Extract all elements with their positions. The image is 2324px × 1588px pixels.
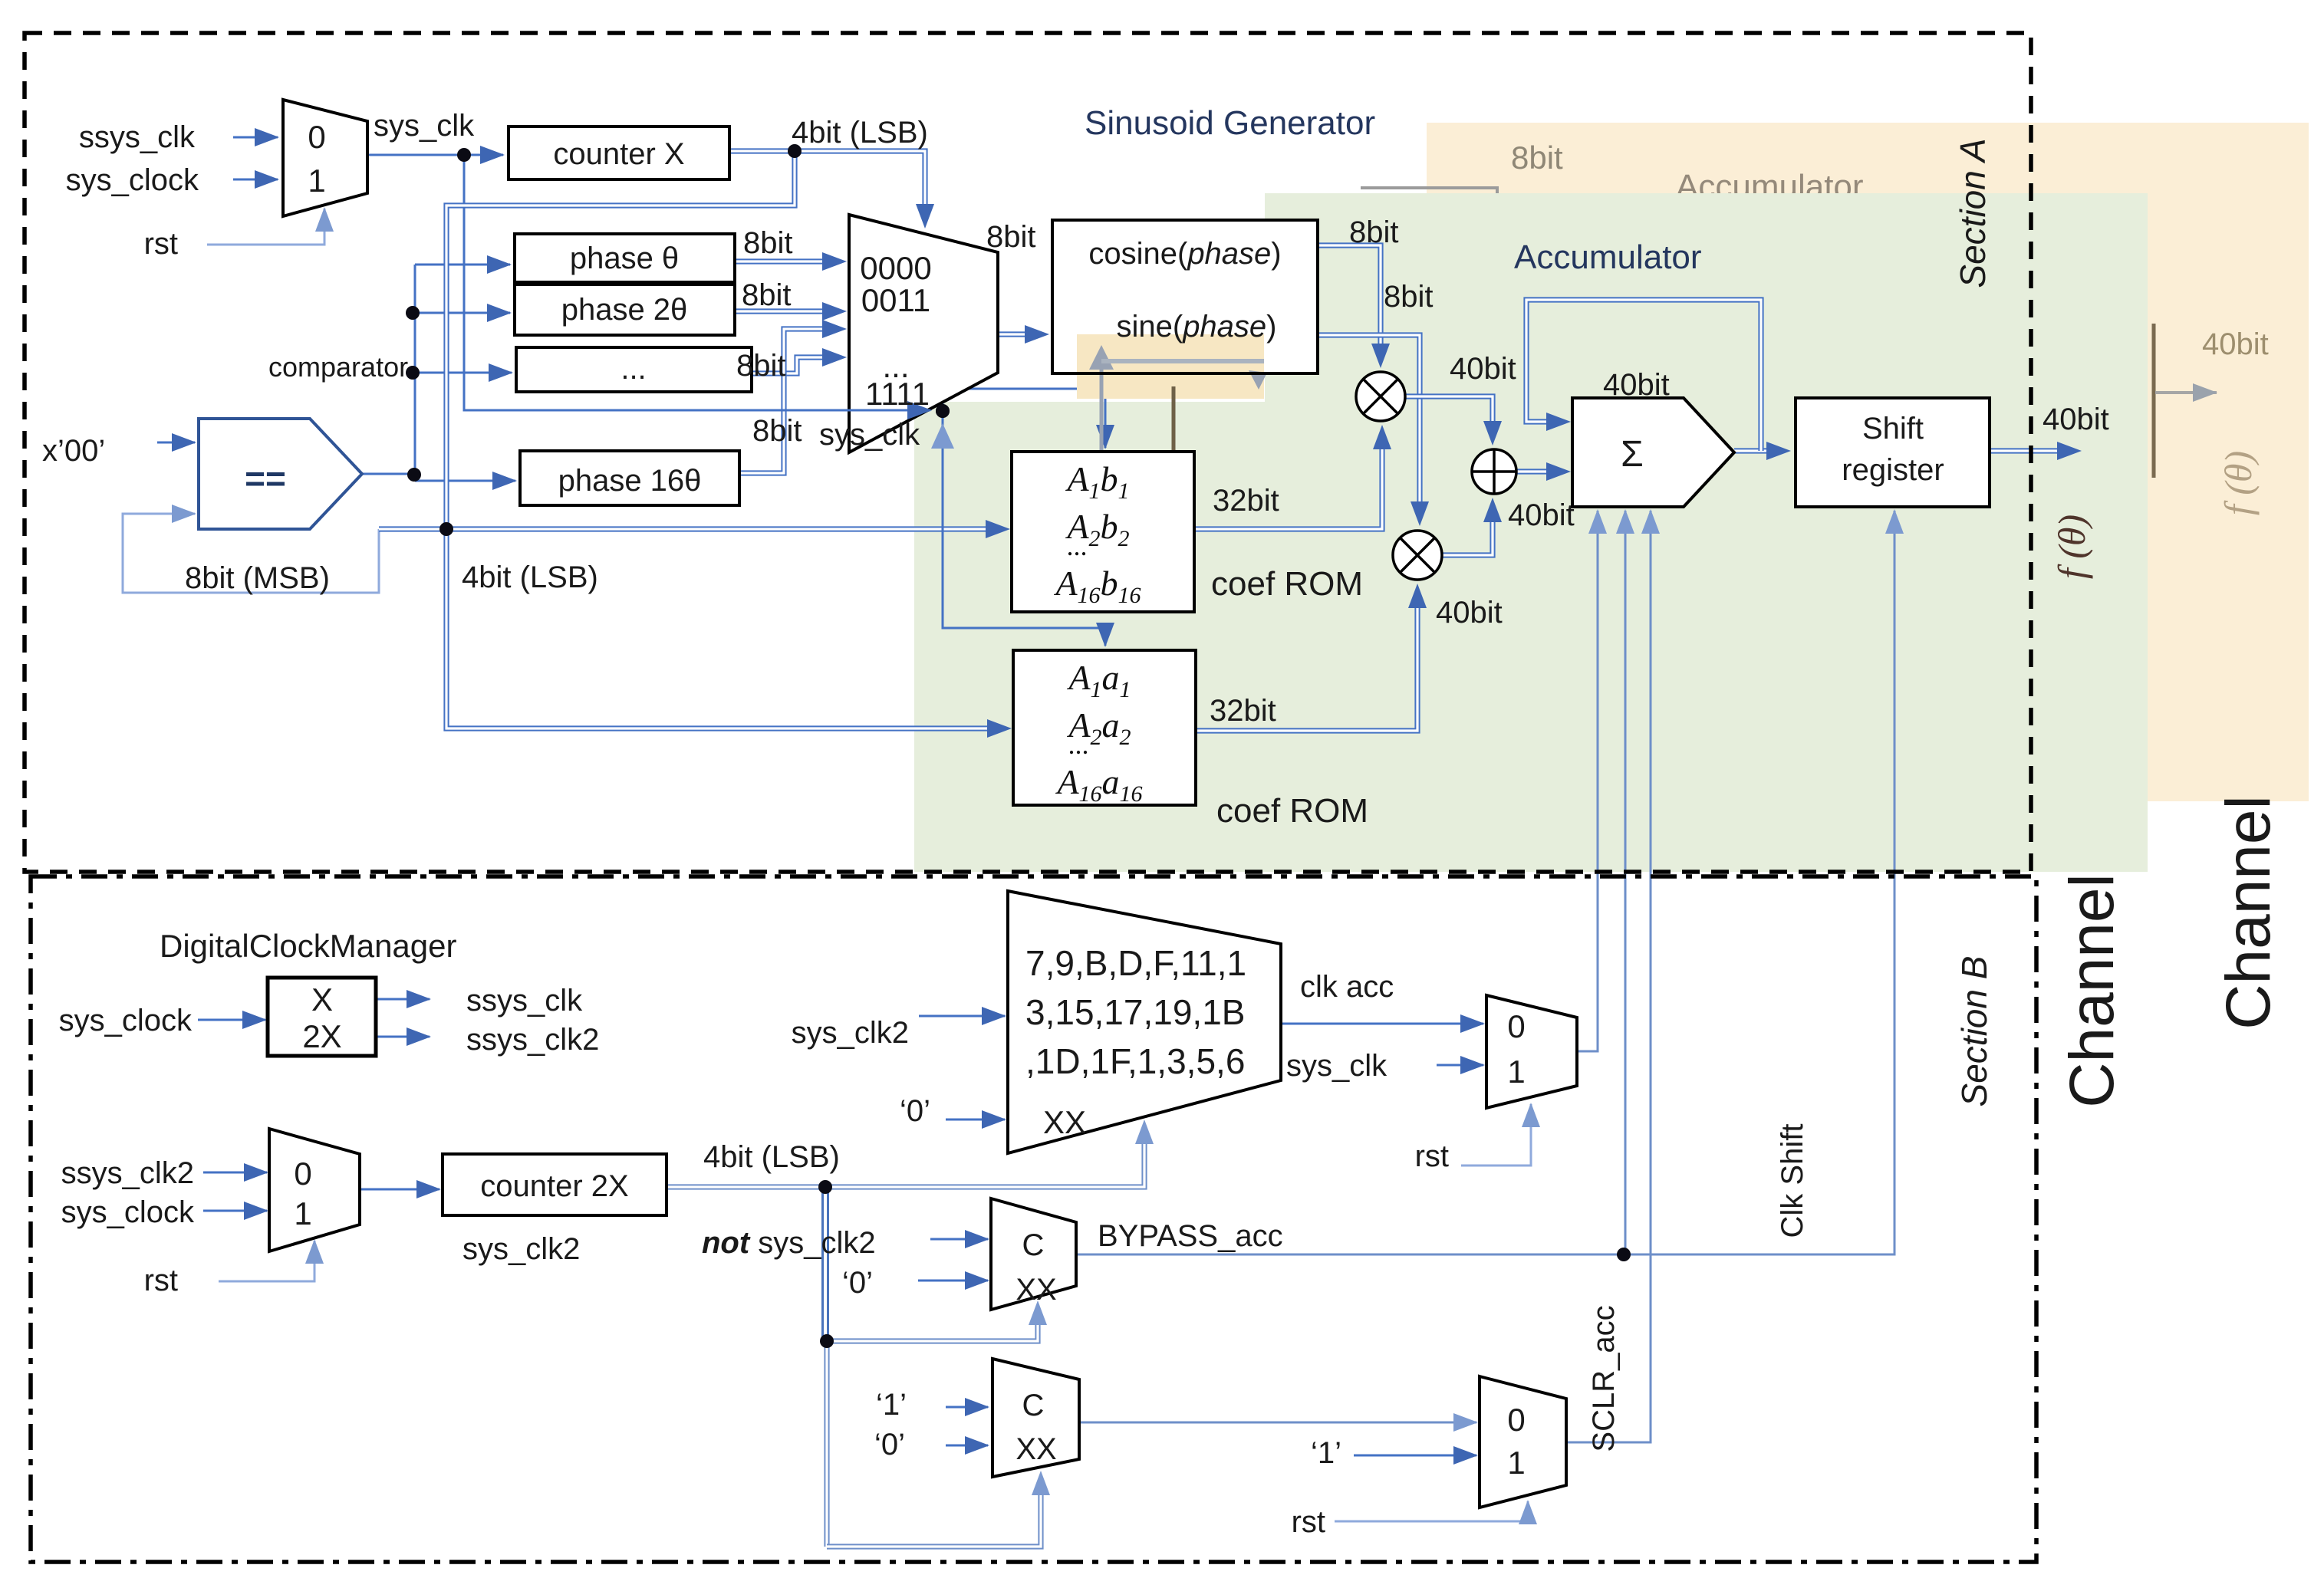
svg-text:ssys_clk: ssys_clk <box>466 984 583 1018</box>
svg-text:sys_clk2: sys_clk2 <box>792 1016 909 1050</box>
svg-text:ssys_clk2: ssys_clk2 <box>61 1156 194 1190</box>
bus dots register output 8bit <box>752 357 845 373</box>
bus a coef ROM output 32bit <box>1196 585 1417 731</box>
mux M6 SCLR select 0/1 <box>1480 1376 1566 1507</box>
svg-text:...: ... <box>621 352 646 386</box>
wire '1' into C mux 2 <box>946 1406 988 1409</box>
svg-text:40bit: 40bit <box>2043 403 2109 436</box>
wire DCM output ssys_clk2 <box>376 1036 430 1038</box>
wire sys_clk into mux M5 <box>1437 1064 1483 1067</box>
mux M5 clk acc select 0/1 <box>1486 995 1577 1108</box>
svg-text:==: == <box>245 459 286 498</box>
bus 4bit LSB to b coef ROM <box>379 526 1009 531</box>
bus sigma 40bit feedback loop <box>1526 300 1761 451</box>
wire to phase 16theta register <box>415 480 515 482</box>
svg-text:Channel: Channel <box>2057 873 2127 1107</box>
Section B dash-dot border <box>31 876 2036 1562</box>
svg-text:8bit: 8bit <box>742 278 792 312</box>
node 4bit LSB branch <box>788 144 802 158</box>
svg-text:8bit: 8bit <box>752 414 802 448</box>
svg-text:Σ: Σ <box>1621 434 1644 475</box>
svg-text:sys_clock: sys_clock <box>61 1195 195 1229</box>
svg-text:rst: rst <box>144 1264 178 1297</box>
svg-text:sys_clk: sys_clk <box>819 418 920 452</box>
bus b coef ROM output 32bit <box>1194 426 1382 529</box>
node comparator output <box>407 468 421 482</box>
svg-text:Channel: Channel <box>2214 795 2283 1029</box>
wire BYPASS_acc from C mux 1 to sigma and shift register <box>1076 511 1894 1254</box>
svg-text:counter X: counter X <box>553 137 684 171</box>
svg-text:2X: 2X <box>302 1018 341 1054</box>
bus multiplier X2 output 40bit into adder <box>1442 499 1493 555</box>
Section A dashed border <box>25 33 2031 872</box>
svg-text:phase θ: phase θ <box>570 242 679 275</box>
svg-text:BYPASS_acc: BYPASS_acc <box>1098 1219 1283 1253</box>
svg-text:Section A: Section A <box>1953 138 1993 288</box>
register phase 16theta <box>520 451 739 505</box>
svg-text:1: 1 <box>294 1195 311 1231</box>
svg-text:X: X <box>311 981 333 1018</box>
wire rst into mux M5 (light) <box>1461 1104 1531 1166</box>
svg-text:sys_clk: sys_clk <box>374 109 475 143</box>
bus select into C mux 2 <box>827 1472 1041 1547</box>
svg-text:rst: rst <box>1415 1139 1449 1173</box>
node 4bit LSB junction <box>439 522 453 536</box>
svg-text:Clk Shift: Clk Shift <box>1776 1124 1809 1238</box>
svg-text:8bit: 8bit <box>743 226 793 260</box>
wire rst into mux M3 (light) <box>219 1241 314 1281</box>
mux M1 (clock select) output wire sys_clk <box>367 154 503 156</box>
svg-text:8bit: 8bit <box>736 349 786 383</box>
svg-text:counter 2X: counter 2X <box>480 1169 628 1203</box>
svg-text:phase 2θ: phase 2θ <box>561 293 688 327</box>
coef ROM b <box>1012 452 1194 612</box>
svg-text:Sinusoid Generator: Sinusoid Generator <box>1085 104 1375 142</box>
bus adder output 40bit into sigma <box>1516 469 1569 474</box>
svg-text:Shift: Shift <box>1862 412 1924 445</box>
wire inputs into mux M3 <box>203 1172 267 1174</box>
node sys_clk at ROMs <box>936 404 950 418</box>
svg-text:0011: 0011 <box>861 282 930 318</box>
faded back-channel shift output <box>2152 324 2156 478</box>
mux M3 clock select 0/1 <box>269 1129 360 1251</box>
svg-text:7,9,B,D,F,11,1: 7,9,B,D,F,11,1 <box>1025 943 1246 983</box>
svg-text:3,15,17,19,1B: 3,15,17,19,1B <box>1025 992 1245 1032</box>
svg-text:0: 0 <box>1507 1402 1525 1438</box>
svg-text:8bit: 8bit <box>1349 215 1399 249</box>
svg-text:sys_clk2: sys_clk2 <box>462 1232 580 1266</box>
svg-text:DigitalClockManager: DigitalClockManager <box>160 928 457 964</box>
svg-text:coef ROM: coef ROM <box>1211 565 1363 603</box>
svg-text:x’00’: x’00’ <box>42 434 105 468</box>
bus counter 2X output 4bit to big clock mux select <box>667 1121 1144 1187</box>
DigitalClockManager box <box>268 978 376 1056</box>
coef ROM a contents <box>1055 658 1142 807</box>
svg-text:‘0’: ‘0’ <box>842 1266 873 1300</box>
svg-text:comparator: comparator <box>268 351 408 383</box>
channel background green left extension <box>914 402 1267 872</box>
svg-text:8bit (MSB): 8bit (MSB) <box>185 561 330 595</box>
bus phase 2theta output 8bit <box>735 308 845 314</box>
svg-text:1: 1 <box>1507 1054 1525 1090</box>
svg-text:Section B: Section B <box>1954 956 1994 1107</box>
svg-text:sys_clk: sys_clk <box>1286 1049 1387 1083</box>
svg-text:sine(phase): sine(phase) <box>1116 310 1276 344</box>
svg-text:40bit: 40bit <box>2202 327 2269 361</box>
wire mux M3 output into counter 2X <box>360 1189 439 1191</box>
wire a coef ROM clock <box>943 411 1105 646</box>
wire '0' into big clock mux <box>946 1119 1005 1121</box>
wire sys_clk vertical + run to coef ROM clocks <box>464 155 930 410</box>
svg-text:40bit: 40bit <box>1603 368 1670 402</box>
register phase theta <box>515 234 735 282</box>
faded back-channel patch over LUT <box>1077 334 1267 462</box>
svg-text:C: C <box>1022 1228 1045 1262</box>
node 4bit LSB section B <box>818 1180 832 1194</box>
svg-text:phase 16θ: phase 16θ <box>558 464 702 498</box>
svg-text:0: 0 <box>308 119 325 155</box>
wire not sys_clk2 into C mux 1 <box>930 1238 988 1241</box>
svg-text:8bit: 8bit <box>1511 140 1563 176</box>
big clock phase mux <box>1008 891 1281 1153</box>
register dots <box>516 347 752 392</box>
8bit (MSB) feedback wire into comparator second input <box>123 514 379 593</box>
svg-text:‘1’: ‘1’ <box>876 1388 907 1422</box>
wire sys_clock into DigitalClockManager <box>198 1019 265 1021</box>
wire to dots register <box>415 372 512 374</box>
bus sigma output 40bit <box>1734 448 1789 453</box>
C mux 2 SCLR <box>992 1359 1079 1477</box>
node dots branch <box>406 366 420 380</box>
svg-text:32bit: 32bit <box>1213 484 1279 518</box>
svg-text:C: C <box>1022 1389 1045 1422</box>
node sys_clk branch <box>457 148 471 162</box>
small up arrow under sys_clk node <box>931 423 954 449</box>
svg-text:8bit: 8bit <box>986 220 1036 254</box>
wire SCLR_acc from mux M6 up to sigma <box>1566 511 1651 1442</box>
svg-text:1: 1 <box>1507 1445 1525 1481</box>
wire inputs into mux M1 <box>233 136 278 139</box>
bus sine output 8bit into multiplier X2 <box>1318 335 1420 524</box>
wire clk acc output into mux M5 <box>1281 1023 1483 1025</box>
wire sys_clk2 into big clock mux <box>919 1015 1005 1018</box>
svg-text:40bit: 40bit <box>1436 596 1503 630</box>
svg-text:...: ... <box>1068 729 1089 760</box>
wire to phase theta register <box>415 264 510 266</box>
bus phase theta output 8bit <box>735 258 845 264</box>
svg-text:...: ... <box>1067 531 1088 561</box>
svg-text:XX: XX <box>1016 1432 1056 1466</box>
bus 4bit select vertical branch <box>821 1187 829 1341</box>
counter 2X <box>443 1154 667 1215</box>
node sys_clk at ROMs overdraw <box>936 404 950 418</box>
wire sys_clk overdraw across mux M2 <box>464 409 930 412</box>
svg-text:sys_clock: sys_clock <box>59 1004 193 1037</box>
svg-text:‘0’: ‘0’ <box>874 1428 905 1461</box>
mux M1 clock select 0/1 <box>283 100 367 216</box>
bus cosine output 8bit into multiplier X1 <box>1318 245 1381 367</box>
wire mux M5 output clk to sigma <box>1577 511 1598 1051</box>
wire b coef ROM clock <box>943 389 1105 448</box>
C mux 1 BYPASS <box>991 1198 1076 1310</box>
svg-text:8bit: 8bit <box>1384 280 1434 314</box>
wire '0' into C mux 1 <box>918 1280 988 1282</box>
svg-text:rst: rst <box>144 227 178 261</box>
node phase2theta branch <box>406 306 420 320</box>
multiplier X2 <box>1393 531 1442 580</box>
svg-text:register: register <box>1842 453 1944 487</box>
svg-text:,1D,1F,1,3,5,6: ,1D,1F,1,3,5,6 <box>1025 1041 1245 1081</box>
svg-text:40bit: 40bit <box>1450 352 1516 386</box>
svg-text:Accumulator: Accumulator <box>1514 238 1702 276</box>
channel background green (front channel accumulator) <box>1265 193 2148 872</box>
bus 4bit (LSB) feedback loop <box>446 151 795 529</box>
svg-text:cosine(phase): cosine(phase) <box>1088 237 1281 271</box>
accumulator sigma <box>1572 398 1734 507</box>
svg-text:4bit (LSB): 4bit (LSB) <box>792 116 928 150</box>
counter X <box>509 127 729 179</box>
wire DCM output ssys_clk <box>376 998 430 1001</box>
svg-text:0: 0 <box>1507 1008 1525 1044</box>
svg-text:32bit: 32bit <box>1210 694 1276 728</box>
svg-text:4bit (LSB): 4bit (LSB) <box>703 1140 840 1174</box>
channel background orange (back channel) <box>1427 123 2309 801</box>
svg-text:XX: XX <box>1043 1104 1086 1140</box>
svg-text:‘0’: ‘0’ <box>900 1094 930 1128</box>
node BYPASS_acc branch <box>1617 1248 1631 1261</box>
svg-text:1: 1 <box>308 163 325 199</box>
bus 4bit LSB to a coef ROM <box>446 529 1010 728</box>
coef ROM a <box>1013 650 1196 805</box>
comparator == <box>199 419 362 529</box>
svg-text:4bit (LSB): 4bit (LSB) <box>462 561 598 594</box>
wire to phase 2theta register <box>415 312 510 314</box>
bus multiplier X1 output 40bit into adder <box>1405 396 1493 444</box>
register phase 2theta <box>515 284 735 335</box>
bus phase 16theta output 8bit <box>739 329 845 473</box>
faded back-channel grey wire <box>1361 188 1497 198</box>
wire rst into mux M6 (light) <box>1335 1501 1528 1521</box>
svg-text:SCLR_acc: SCLR_acc <box>1587 1305 1621 1452</box>
bus select into C mux 1 <box>827 1302 1038 1341</box>
svg-text:f (θ): f (θ) <box>2217 451 2260 515</box>
cosine/sine LUT box <box>1052 220 1318 373</box>
node select branch <box>820 1334 834 1348</box>
svg-text:‘1’: ‘1’ <box>1311 1436 1341 1470</box>
svg-text:XX: XX <box>1016 1273 1056 1307</box>
comparator output vertical distribution wire <box>362 265 415 474</box>
svg-text:coef ROM: coef ROM <box>1216 792 1368 830</box>
svg-text:1111: 1111 <box>865 376 930 412</box>
bus shift register output 40bit <box>1990 448 2080 453</box>
svg-text:0: 0 <box>294 1156 311 1192</box>
svg-text:40bit: 40bit <box>1508 498 1575 532</box>
svg-text:ssys_clk: ssys_clk <box>79 120 196 154</box>
wire C mux 2 output into mux M6 <box>1079 1422 1476 1424</box>
wire x'00' into comparator <box>157 442 195 444</box>
wire '0' into C mux 2 <box>946 1445 988 1447</box>
wire '1' into mux M6 <box>1354 1455 1476 1457</box>
svg-text:f (θ): f (θ) <box>2050 515 2093 579</box>
mux M2 phase select <box>849 215 998 452</box>
svg-text:clk acc: clk acc <box>1300 970 1394 1004</box>
bus counter X output 4bit <box>729 151 925 227</box>
svg-text:sys_clock: sys_clock <box>66 163 199 197</box>
coef ROM b contents <box>1053 459 1141 608</box>
svg-text:ssys_clk2: ssys_clk2 <box>466 1023 599 1057</box>
bus mux M2 output 8bit into cosine/sine LUT <box>998 331 1048 337</box>
svg-text:0000: 0000 <box>860 250 931 286</box>
shift register box <box>1796 398 1990 507</box>
svg-text:rst: rst <box>1292 1505 1325 1539</box>
adder plus <box>1472 449 1516 494</box>
wire rst into mux M1 (light) <box>207 209 324 245</box>
svg-text:not sys_clk2: not sys_clk2 <box>702 1226 876 1260</box>
multiplier X1 <box>1356 372 1405 421</box>
